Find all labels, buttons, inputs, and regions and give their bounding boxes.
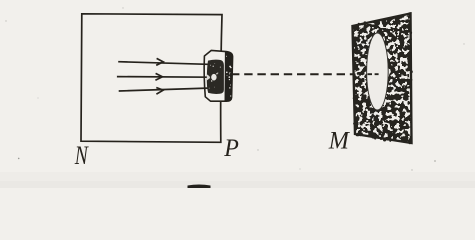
screen white ellipse spot (367, 33, 389, 110)
box N (81, 14, 222, 143)
cup P outer outline (204, 50, 232, 101)
svg-text:N: N (74, 141, 89, 171)
svg-text:M: M (328, 127, 350, 155)
blob speckles (209, 63, 221, 88)
arrow 3 (bottom ray) (119, 88, 208, 95)
bottom cropped figure-caption bar (188, 185, 211, 189)
cup P right dark band (225, 52, 233, 102)
band speckles (226, 56, 232, 97)
bottom scan shading (0, 172, 475, 188)
svg-text:P: P (223, 134, 239, 162)
plate ragged edge bumps (352, 12, 413, 144)
cup P inner speckled blob (207, 60, 224, 94)
arrow 1 (top ray) (118, 58, 208, 65)
plate stipple texture (353, 14, 412, 144)
cup left notch (middle ray entry) (207, 74, 210, 80)
plate base (353, 14, 412, 144)
paper background (0, 0, 475, 188)
paper specks (5, 7, 464, 170)
cup white hole (211, 74, 216, 81)
dashes inside ellipse (368, 73, 379, 75)
dashed axis line (231, 73, 378, 75)
plate border (353, 14, 412, 144)
arrow 2 (middle ray) (117, 73, 209, 80)
